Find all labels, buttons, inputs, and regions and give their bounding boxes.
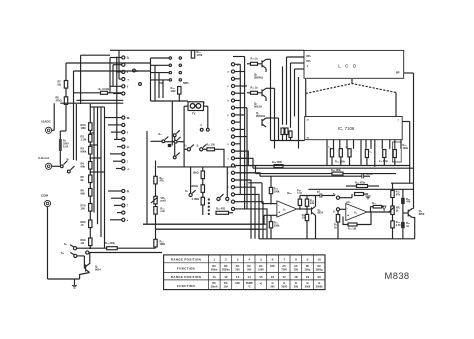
- svg-text:47k: 47k: [396, 194, 401, 197]
- switch contact S2b: [139, 83, 142, 86]
- resistor R41b filled: [401, 222, 405, 228]
- svg-text:M838: M838: [385, 270, 410, 281]
- wire contact stub: [113, 64, 122, 66]
- wire fuse bottom: [59, 151, 61, 165]
- svg-text:-: -: [347, 206, 349, 210]
- switch contact B9: [231, 121, 234, 124]
- wire divider ladder spine: [89, 104, 91, 123]
- switch contact C2: [217, 197, 220, 200]
- svg-text:2000μ: 2000μ: [316, 268, 324, 271]
- svg-text:10k: 10k: [310, 202, 315, 205]
- wire R49 right: [368, 185, 380, 187]
- svg-text:C₉ 1n: C₉ 1n: [367, 173, 374, 176]
- wire contact stub: [117, 146, 122, 148]
- ground: [72, 284, 77, 286]
- svg-text:C₅: C₅: [370, 152, 373, 154]
- wire column B verticals: [239, 64, 241, 194]
- switch contact B16: [231, 171, 234, 174]
- switch contact Sc2: [173, 134, 176, 137]
- wire contact stub: [235, 78, 241, 80]
- wire riser to bus REF high: [236, 151, 248, 165]
- wire fuse top: [59, 131, 61, 139]
- svg-text:2000: 2000: [281, 286, 287, 289]
- wire Q5 emitter: [265, 68, 267, 72]
- wire long run A: [143, 223, 266, 225]
- wire C10 bottom: [299, 205, 301, 209]
- wire rail to switch lower: [60, 102, 123, 104]
- svg-text:900: 900: [81, 192, 86, 196]
- resistor R38 560k: [274, 165, 283, 168]
- wire VR2 arrow: [389, 207, 395, 213]
- switch contact A9: [122, 131, 125, 134]
- LCD display block: [304, 50, 404, 78]
- switch contact A1: [122, 56, 125, 59]
- svg-text:A₁: A₁: [283, 208, 286, 212]
- switch contact A17: [122, 204, 125, 207]
- wire to ground: [74, 279, 76, 285]
- resistor R50 100k: [332, 172, 343, 175]
- wire Q6 emitter: [265, 97, 267, 101]
- wire switch arm S4: [70, 245, 74, 247]
- switch contact A5: [122, 85, 125, 88]
- resistor R0 0.01ohm 10A shunt: [101, 91, 108, 94]
- wire R46a top: [306, 196, 308, 200]
- capacitor C3 100n: [330, 149, 333, 157]
- svg-text:90k: 90k: [81, 165, 86, 169]
- svg-text:R₅₁: R₅₁: [372, 203, 376, 205]
- svg-text:min: min: [161, 210, 166, 213]
- resistor R47 10k: [305, 214, 308, 220]
- svg-text:14: 14: [248, 275, 252, 279]
- svg-text:R₃₈ 560k: R₃₈ 560k: [272, 161, 283, 164]
- svg-text:4: 4: [227, 71, 229, 74]
- wire long vertical B: [75, 104, 77, 161]
- wire R51b to LED: [382, 206, 384, 208]
- resistor R2A 10M: [89, 123, 92, 131]
- svg-text:15: 15: [259, 275, 263, 279]
- svg-text:8: 8: [227, 86, 229, 88]
- potentiometer VR2 2k: [391, 206, 394, 215]
- wire opamp2 output: [367, 211, 391, 213]
- wire to R45: [247, 63, 251, 65]
- switch contact B10: [231, 128, 234, 131]
- svg-text:6: 6: [227, 115, 229, 117]
- svg-text:9013H: 9013H: [254, 105, 262, 109]
- svg-text:+: +: [278, 211, 280, 215]
- switch contact B21: [231, 207, 234, 210]
- resistor R40: [178, 87, 181, 95]
- svg-text:100k: 100k: [274, 225, 280, 228]
- wire socket right: [204, 105, 208, 107]
- wire bus C9 line: [260, 175, 362, 177]
- switch contact TV-a: [200, 128, 203, 131]
- svg-text:COM: COM: [41, 194, 49, 198]
- wire contact stub: [235, 143, 241, 145]
- svg-text:2N5401: 2N5401: [254, 76, 264, 80]
- wire R51 right: [364, 193, 369, 195]
- switch contact A14: [122, 167, 125, 170]
- svg-text:10ADC: 10ADC: [41, 120, 52, 124]
- resistor R46a 10k: [305, 199, 308, 206]
- resistor R41 470k: [191, 51, 194, 59]
- svg-text:20k: 20k: [294, 286, 299, 289]
- wire long vertical mid: [146, 131, 148, 224]
- wire R48 top to bus: [270, 176, 272, 187]
- wire S5 to Q1 base: [77, 255, 84, 257]
- resistor R46 47ohm: [216, 211, 229, 214]
- resistor R40b filled: [401, 198, 405, 204]
- switch contact Sc3: [174, 140, 177, 143]
- wire bus to C3: [226, 167, 228, 197]
- svg-text:3: 3: [227, 158, 229, 160]
- svg-text:DP₂: DP₂: [307, 60, 312, 63]
- resistor R7: [64, 81, 67, 89]
- wire contact stub: [108, 190, 122, 192]
- resistor R8: [64, 97, 67, 105]
- wire arm Sc1: [165, 137, 168, 140]
- svg-text:R₀ 0.01Ω: R₀ 0.01Ω: [99, 88, 110, 91]
- wire ladder tap: [90, 171, 104, 173]
- resistor R51b 470k: [373, 205, 382, 208]
- wire right bus 1: [409, 122, 411, 184]
- svg-text:19: 19: [306, 275, 310, 279]
- resistor R45 1k: [251, 62, 258, 65]
- wire hFE row: [151, 72, 169, 74]
- wire contact bend to ground bus: [235, 187, 255, 239]
- wire hFE row: [151, 79, 169, 81]
- wire Sc2 to Sc3: [174, 137, 176, 140]
- resistor R36 47k: [391, 191, 394, 198]
- resistor R2 1.1M: [89, 134, 92, 142]
- capacitor C9 1n: [361, 174, 363, 178]
- wire between filled resistors: [402, 204, 404, 222]
- svg-text:200μ: 200μ: [305, 268, 311, 271]
- switch contact S5: [74, 254, 77, 257]
- switch contact A11: [122, 145, 125, 148]
- wire to R0 left: [74, 92, 101, 94]
- svg-text:0.1μ: 0.1μ: [297, 192, 302, 195]
- wire C9 right: [364, 175, 370, 177]
- wire top rail B: [74, 70, 151, 72]
- wire riser to bus C9: [236, 173, 260, 176]
- wire long vertical to bus: [183, 106, 185, 167]
- svg-text:7: 7: [283, 258, 285, 262]
- wire R0 right to switch: [108, 92, 122, 94]
- wire contact bend to ground bus: [235, 180, 251, 239]
- wire top rail C: [110, 49, 119, 51]
- wire Q1 emitter: [80, 273, 90, 280]
- svg-text:47k: 47k: [160, 180, 165, 183]
- wire to R44b: [247, 92, 251, 94]
- svg-text:V·Ω·mA: V·Ω·mA: [38, 156, 50, 160]
- wire segment fan LCD to IC: [305, 79, 307, 94]
- wire socket left: [184, 105, 188, 107]
- transistor Q2: [311, 207, 313, 214]
- svg-text:OFF: OFF: [270, 265, 275, 268]
- svg-text:10kΩ: 10kΩ: [193, 172, 199, 175]
- switch contact A7: [122, 116, 125, 119]
- svg-text:R₄₆ 47Ω: R₄₆ 47Ω: [216, 208, 225, 211]
- svg-text:9: 9: [307, 258, 309, 262]
- svg-text:100kΩ: 100kΩ: [191, 185, 199, 188]
- switch contact B19: [231, 193, 234, 196]
- svg-text:S₀: S₀: [237, 65, 239, 67]
- wire C10 top: [299, 196, 301, 200]
- svg-text:R₅₃ 10k: R₅₃ 10k: [348, 229, 357, 231]
- svg-text:4.7MΩ: 4.7MΩ: [192, 198, 200, 201]
- wire R40b top: [402, 189, 404, 197]
- svg-text:1: 1: [213, 258, 215, 262]
- wire arm Sc2: [176, 130, 179, 133]
- svg-text:S₆: S₆: [333, 193, 336, 196]
- svg-text:TV: TV: [192, 112, 196, 116]
- svg-text:2N5401: 2N5401: [256, 114, 266, 118]
- resistor R54 1k below S7: [336, 215, 339, 223]
- svg-text:C₂: C₂: [346, 147, 349, 149]
- switch contact B4: [231, 84, 234, 87]
- transistor Q1 9014: [85, 265, 87, 272]
- wire to S1a: [184, 148, 187, 150]
- svg-text:20: 20: [318, 275, 322, 279]
- svg-text:R₁₇: R₁₇: [159, 134, 163, 136]
- svg-text:R₄₅ 1k: R₄₅ 1k: [251, 58, 259, 61]
- wire contact stub: [113, 93, 122, 95]
- wire R7 to R8: [65, 88, 67, 97]
- switch contact B5: [231, 92, 234, 95]
- resistor R37 4.7k: [391, 221, 394, 228]
- svg-text:RANGE POSITION: RANGE POSITION: [171, 275, 201, 279]
- wire hFE row: [151, 64, 169, 66]
- capacitor C11: [319, 193, 321, 197]
- wire R41b to bus: [402, 228, 404, 239]
- ground near R51: [365, 195, 370, 197]
- resistor R14 47k: [154, 176, 157, 184]
- wire S1b to R44: [203, 148, 207, 150]
- svg-text:9: 9: [127, 72, 129, 74]
- wire feedback through R53: [343, 217, 348, 225]
- svg-text:1MΩ: 1MΩ: [160, 243, 165, 246]
- wire arm C1: [192, 190, 195, 193]
- wire S7 to inverting input: [340, 208, 346, 210]
- wire bus REF low: [253, 167, 414, 169]
- wire ladder tap: [90, 144, 97, 146]
- wire ladder tap: [90, 132, 94, 134]
- svg-text:12: 12: [224, 275, 228, 279]
- wire middle stack spine: [202, 167, 204, 171]
- wire contact stub: [114, 138, 122, 140]
- wire Sc1 to Sc3: [165, 141, 174, 143]
- wire right bus to Q3: [413, 183, 415, 208]
- svg-text:16: 16: [271, 275, 275, 279]
- switch contact A8: [122, 123, 125, 126]
- wire S6 over-the-top path: [340, 197, 352, 199]
- resistor R6 900: [89, 189, 92, 197]
- wire contact stub: [110, 57, 122, 59]
- fuse F1 250V 0.2A: [59, 139, 62, 151]
- switch contact B3: [231, 77, 234, 80]
- wire Q3 base stub: [403, 212, 408, 214]
- svg-text:8050: 8050: [419, 212, 425, 216]
- switch contact B11: [231, 135, 234, 138]
- switch contact Sc1: [162, 140, 165, 143]
- svg-text:9014: 9014: [318, 212, 324, 215]
- switch contact S5b: [86, 251, 89, 254]
- wire arm S1b: [203, 145, 206, 148]
- resistor R46b 1k: [251, 91, 258, 94]
- svg-text:10: 10: [318, 258, 322, 262]
- wire contact stub: [235, 165, 241, 167]
- svg-text:21: 21: [307, 120, 310, 122]
- switch contact S7: [336, 208, 339, 211]
- switch contact A2: [122, 63, 125, 66]
- wire R47 top: [306, 209, 308, 214]
- switch contact A13: [122, 160, 125, 163]
- svg-text:FUNCTION: FUNCTION: [177, 284, 195, 288]
- wire riser to bus REF low: [236, 158, 253, 168]
- resistor R32: [393, 150, 396, 158]
- svg-text:▸|: ▸|: [259, 282, 262, 285]
- wire contact stub: [235, 172, 256, 174]
- wire contact stub: [110, 85, 122, 87]
- switch contact C1: [189, 193, 192, 196]
- wire arm C2: [220, 194, 223, 197]
- wire contact stub: [111, 131, 122, 133]
- wire R16 to R13: [117, 247, 155, 249]
- svg-text:2k: 2k: [396, 209, 399, 212]
- contact dots beside middle stack: [208, 198, 210, 200]
- wire left stack spine: [155, 161, 157, 177]
- wire socket right down: [207, 106, 209, 128]
- resistor R52 100k: [269, 222, 272, 228]
- svg-text:13: 13: [236, 275, 240, 279]
- wire inverting input feed: [261, 183, 263, 204]
- wire contact stub: [113, 160, 122, 162]
- switch contact A12: [122, 152, 125, 155]
- resistor R15: [154, 207, 157, 215]
- wire fan left down: [305, 94, 307, 117]
- switch contact C3: [226, 197, 229, 200]
- wire contact stub: [116, 168, 122, 170]
- svg-text:470Ω: 470Ω: [56, 99, 62, 102]
- transistor Q7: [261, 119, 263, 126]
- wire Q2 emitter to bus: [315, 215, 317, 239]
- switch contact S6: [336, 196, 339, 199]
- terminal COM: [44, 200, 50, 206]
- wire contact stub: [235, 85, 247, 87]
- IC U1 ICL7106: [305, 117, 403, 140]
- switch contact S4: [73, 247, 76, 250]
- switch contact B14: [231, 157, 234, 160]
- wire long vertical A: [73, 71, 75, 160]
- wire long run B to ground: [156, 228, 260, 230]
- wire contact stub: [235, 128, 245, 130]
- resistor R13 1M: [154, 239, 157, 247]
- svg-text:200: 200: [294, 268, 299, 271]
- hFE switch contacts PNP/NPN: [169, 57, 171, 59]
- svg-text:1.1M: 1.1M: [81, 137, 87, 141]
- resistor R5 9k: [89, 175, 92, 183]
- capacitor C6 100n: [383, 150, 386, 158]
- svg-text:10k: 10k: [302, 217, 307, 220]
- wire contact stub: [235, 71, 245, 73]
- wire contact stub: [119, 78, 122, 80]
- wire riser from 10A terminal: [53, 103, 55, 130]
- wire arm Sc4: [176, 153, 179, 156]
- wire contact stub: [110, 219, 122, 221]
- wire R51b into output: [371, 207, 374, 212]
- wire riser to bus analog common: [236, 166, 256, 174]
- wire mid bus: [157, 166, 236, 168]
- svg-text:9: 9: [227, 144, 229, 146]
- switch contact B12: [231, 142, 234, 145]
- wire long run B: [156, 228, 267, 230]
- wire R54 to bus: [337, 222, 339, 239]
- switch contact A15: [122, 189, 125, 192]
- svg-text:S₁: S₁: [197, 144, 200, 147]
- svg-text:φ2: φ2: [317, 192, 321, 194]
- potentiometer VR1: [154, 196, 157, 204]
- junction output: [299, 208, 301, 210]
- svg-text:2: 2: [237, 108, 239, 110]
- wire C11 right: [322, 195, 335, 197]
- switch contact B13: [231, 150, 234, 153]
- wire switch arm S2b: [71, 166, 75, 170]
- resistor R53 10k: [348, 223, 357, 226]
- svg-text:100k: 100k: [274, 190, 280, 193]
- wire R47 bottom to bus: [306, 221, 308, 239]
- wire Q6 collector: [266, 87, 275, 89]
- svg-text:9014: 9014: [95, 268, 101, 272]
- table column lines: [207, 255, 209, 290]
- wire to R49: [346, 185, 357, 187]
- wire BP out: [404, 72, 414, 74]
- wire S3 up: [190, 167, 192, 193]
- svg-text:4: 4: [248, 258, 250, 262]
- svg-text:2000k: 2000k: [316, 286, 324, 289]
- wire contact bend to ground bus: [235, 194, 259, 238]
- svg-text:1000: 1000: [258, 268, 264, 271]
- svg-text:1: 1: [307, 65, 309, 68]
- wire contact stub: [116, 71, 122, 73]
- wire Q3 emitter to bus: [412, 218, 415, 239]
- wire contact stub: [235, 100, 241, 102]
- wire contact stub: [105, 117, 122, 119]
- wire tap header: [90, 106, 104, 108]
- transistor Q3 8050: [407, 210, 409, 217]
- wire Sc3 to Sc4: [174, 143, 176, 156]
- terminal 10ADC: [46, 127, 52, 133]
- svg-text:+: +: [204, 101, 206, 104]
- svg-text:1k: 1k: [406, 225, 409, 228]
- resistors in bundle bottom: [281, 128, 284, 135]
- contact S2-2: [67, 170, 70, 173]
- wire to R52: [270, 215, 272, 221]
- svg-text:IC₂ₐ: IC₂ₐ: [287, 192, 292, 195]
- switch contact B7: [231, 106, 234, 109]
- svg-text:9Ω: 9Ω: [58, 83, 61, 86]
- svg-text:°C: °C: [248, 286, 251, 289]
- capacitor C10: [298, 199, 301, 205]
- switch contact B1: [231, 63, 234, 66]
- svg-text:18: 18: [294, 275, 298, 279]
- wire into Sc1: [151, 140, 162, 142]
- svg-text:A₂: A₂: [354, 211, 358, 215]
- svg-text:Ω: Ω: [128, 169, 130, 171]
- wire down to Q1 base: [84, 256, 85, 268]
- svg-text:S₂: S₂: [67, 159, 70, 161]
- resistor R16 240k: [107, 247, 118, 250]
- switch contact B18: [231, 186, 234, 189]
